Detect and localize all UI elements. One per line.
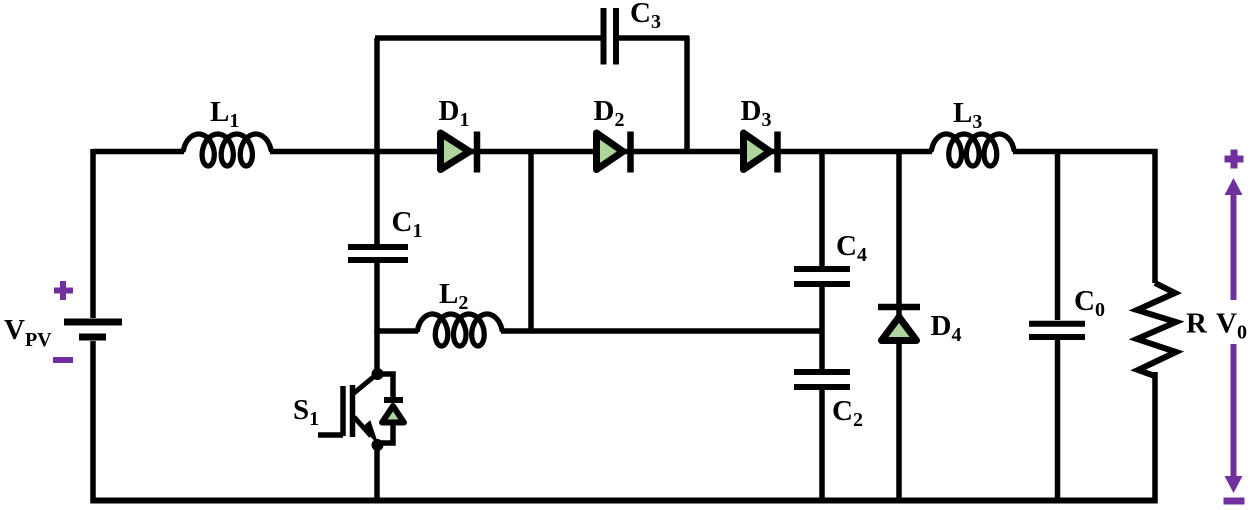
svg-text:C1: C1 xyxy=(392,206,423,242)
wire: D4 branch vertical x=899 xyxy=(896,152,902,503)
svg-text:L1: L1 xyxy=(210,96,239,132)
wire: S1 collector vertical from L2 node xyxy=(374,331,380,373)
wire: S1 emitter vertical to bottom rail xyxy=(374,445,380,503)
wire: R branch vertical x=1155 xyxy=(1152,149,1158,503)
battery VPV plates xyxy=(64,319,122,326)
capacitor C4 plates xyxy=(794,269,850,284)
S1 emitter diagonal with arrow xyxy=(354,417,371,436)
svg-text:D2: D2 xyxy=(594,95,625,131)
wire: C3 branch top left vertical x=377 xyxy=(374,38,380,154)
resistor R zigzag xyxy=(1137,283,1176,376)
S1 collector diagonal xyxy=(354,374,377,393)
diode D4 xyxy=(878,307,920,341)
svg-text:D1: D1 xyxy=(439,95,470,131)
capacitor C1 plates xyxy=(348,247,408,260)
transistor S1 IGBT xyxy=(318,331,404,503)
wire: bottom rail y=497 xyxy=(91,498,1158,504)
wire: left rail battery branch xyxy=(90,149,96,503)
inductor L3 xyxy=(932,134,1015,166)
wire: C0 branch vertical x=1059 xyxy=(1055,152,1061,503)
capacitor C3 plates xyxy=(604,8,617,65)
svg-text:V0: V0 xyxy=(1216,308,1247,344)
svg-text:D3: D3 xyxy=(741,95,772,131)
S1 body bar xyxy=(350,385,356,437)
wire: D1-D2 junction drop x=531 xyxy=(528,152,534,331)
svg-text:C0: C0 xyxy=(1074,285,1105,321)
svg-text:C2: C2 xyxy=(832,395,863,431)
diode D1 xyxy=(441,132,478,173)
svg-text:VPV: VPV xyxy=(4,314,52,351)
wire: C1 branch vertical upper x=377 xyxy=(374,152,380,244)
wire: L2 horizontal rail y=331 xyxy=(377,328,824,334)
node: S1 top junction dot xyxy=(372,368,384,380)
wire: C3 right vertical x=687 xyxy=(684,36,690,154)
svg-text:R: R xyxy=(1186,308,1208,340)
svg-text:C3: C3 xyxy=(630,0,661,33)
output V0 double arrow (purple) xyxy=(1225,178,1243,493)
svg-text:S1: S1 xyxy=(293,394,319,430)
diode D2 xyxy=(597,132,631,173)
output minus sign (purple) xyxy=(1224,498,1245,505)
svg-text:L2: L2 xyxy=(439,278,468,314)
capacitor C2 plates xyxy=(794,372,850,387)
battery plus sign (purple) xyxy=(54,281,73,300)
inductor L2 xyxy=(418,314,503,346)
S1 gate lead wire xyxy=(318,432,343,438)
inductor L1 xyxy=(184,134,272,166)
wire: main top horizontal rail y=152 xyxy=(93,149,1158,155)
battery minus sign (purple) xyxy=(53,357,73,363)
svg-text:L3: L3 xyxy=(953,97,982,133)
capacitor C0 plates xyxy=(1029,324,1085,337)
wire: C4/C2 branch vertical x=822 xyxy=(819,152,825,503)
node: S1 bottom junction dot xyxy=(372,439,384,451)
diode D3 xyxy=(744,132,778,173)
wire: C1 to L2 junction vertical xyxy=(374,263,380,333)
output plus sign (purple) xyxy=(1225,150,1244,169)
svg-text:C4: C4 xyxy=(836,230,867,266)
svg-text:D4: D4 xyxy=(931,310,962,346)
S1 gate bar xyxy=(340,386,346,436)
wire: C3 top horizontal y=38 xyxy=(375,35,689,41)
S1 antiparallel diode branch wire xyxy=(377,374,393,443)
S1 antiparallel diode xyxy=(384,397,403,403)
